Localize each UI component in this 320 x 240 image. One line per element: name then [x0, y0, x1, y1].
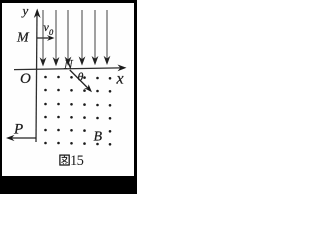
x-axis [14, 68, 121, 70]
dot row 6 [44, 142, 47, 145]
frame top border [0, 0, 137, 3]
svg-text:B: B [94, 130, 103, 145]
field arrow 6 [106, 10, 108, 59]
electric field arrow 1 [43, 10, 107, 61]
dot row 5 [44, 129, 47, 132]
svg-text:O: O [20, 71, 31, 87]
svg-text:P: P [13, 122, 23, 138]
bottom black band [0, 176, 137, 194]
dot row 4 [44, 116, 47, 119]
y-axis arrowhead [34, 9, 41, 19]
magnetic field dot grid (B out of page) [44, 76, 111, 146]
y-axis [36, 13, 37, 142]
dot row 1 [44, 76, 47, 79]
svg-text:y: y [21, 3, 29, 18]
x-axis arrowhead [118, 65, 127, 72]
svg-text:15: 15 [70, 153, 84, 169]
field arrow 5 [94, 10, 96, 59]
dot row 2 [44, 89, 47, 92]
svg-text:θ: θ [78, 70, 84, 84]
velocity vector at N (angle theta) [70, 70, 88, 88]
field arrow 2 [55, 10, 57, 61]
field arrowheads [40, 56, 111, 67]
v0 velocity arrow at M [37, 37, 50, 39]
field arrow 3 [67, 10, 69, 60]
P arrow (leftward) [11, 137, 36, 139]
frame left border [0, 0, 2, 178]
svg-text:M: M [16, 31, 30, 46]
svg-text:x: x [116, 71, 124, 88]
field arrow 4 [81, 10, 83, 60]
caption: hand-drawn CJK glyph "tu" (figure) [60, 155, 69, 165]
svg-text:N: N [63, 57, 74, 72]
frame right border [134, 0, 137, 178]
dot row 3 [44, 103, 47, 106]
